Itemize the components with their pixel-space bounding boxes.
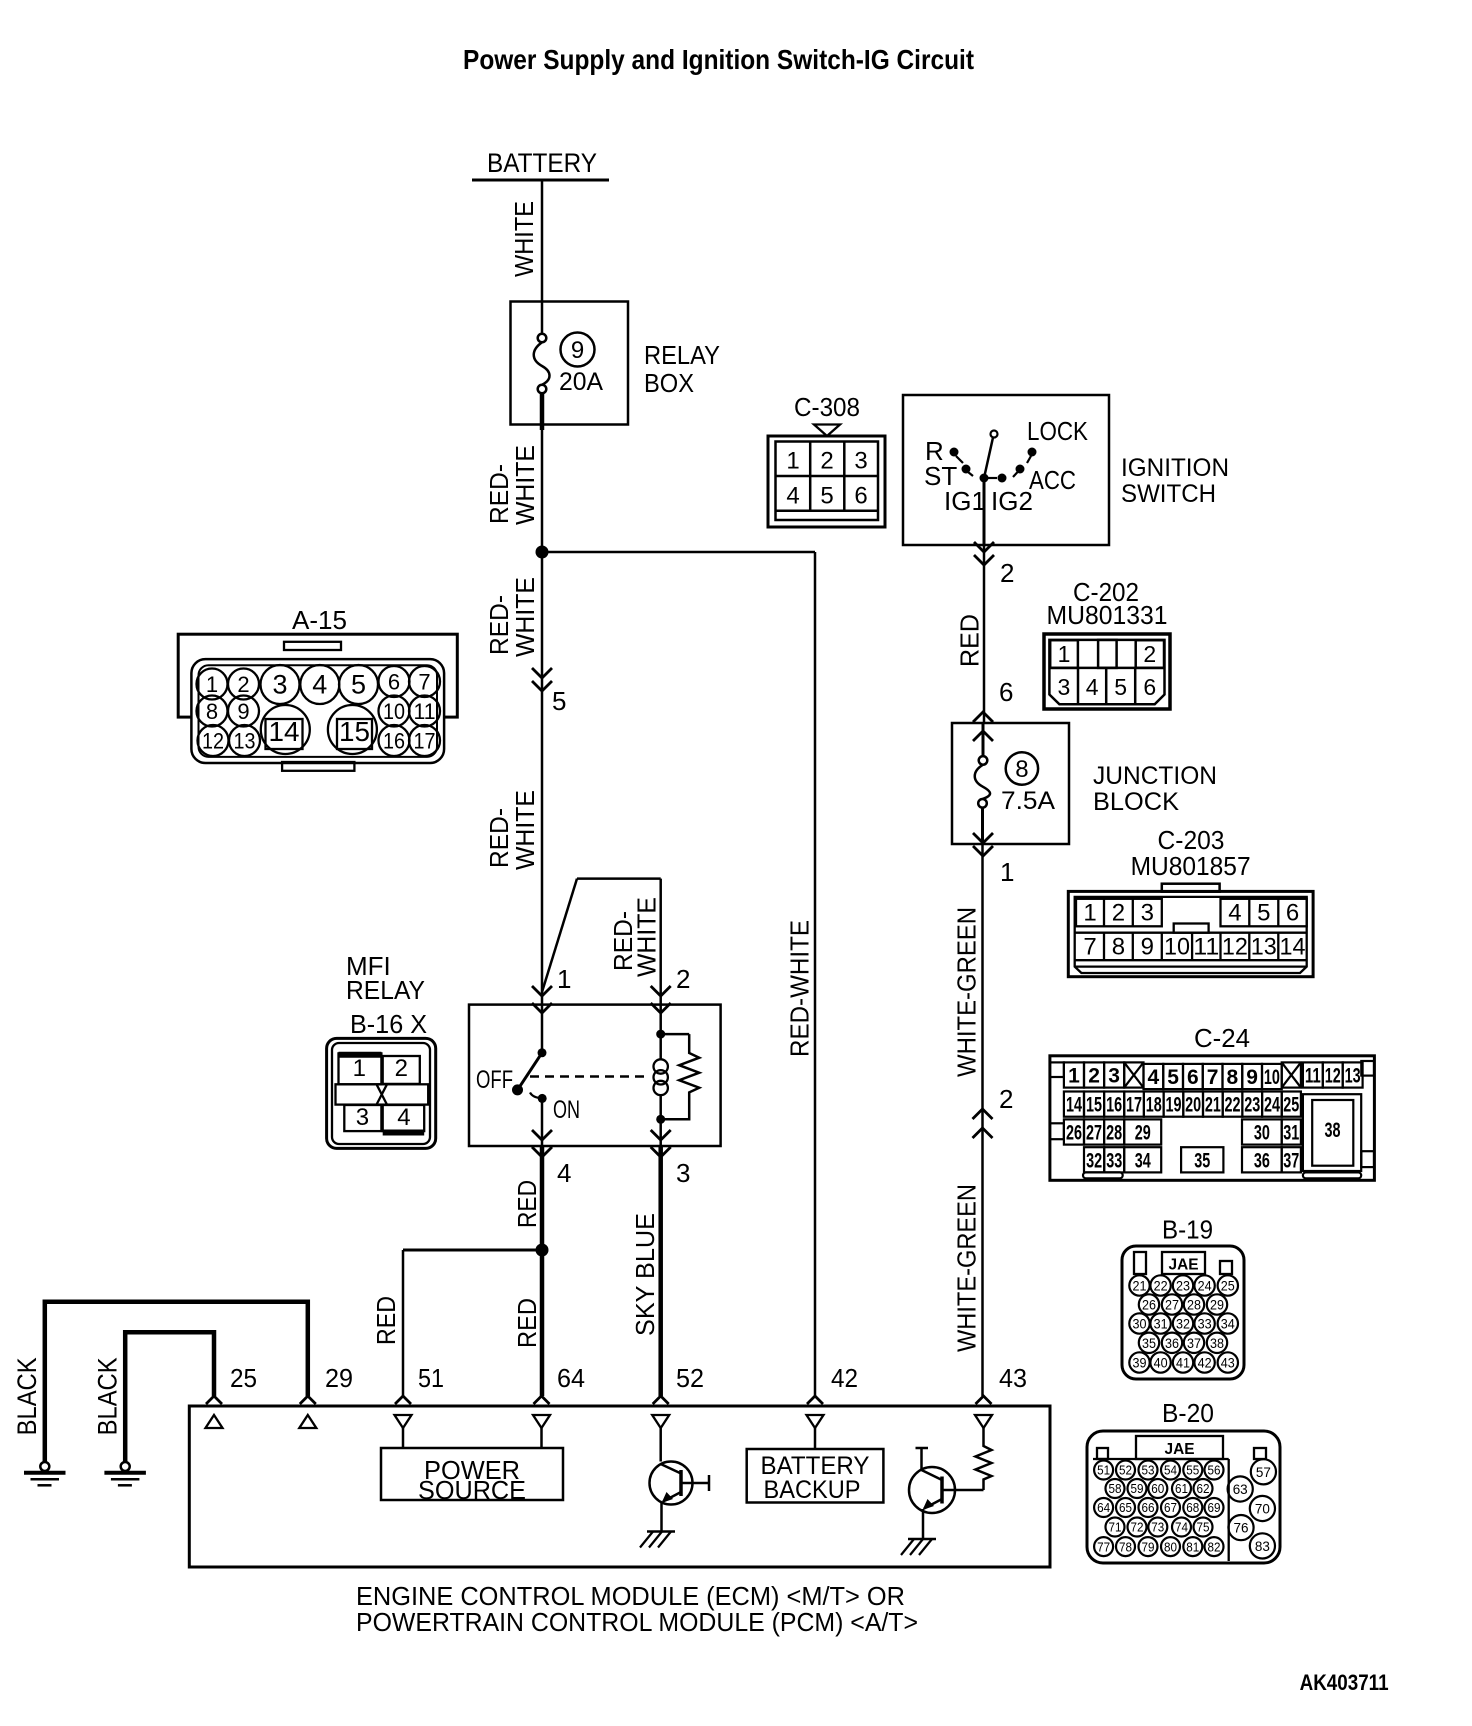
svg-text:WHITE-GREEN: WHITE-GREEN [952, 1184, 982, 1352]
svg-text:MU801857: MU801857 [1131, 851, 1251, 881]
wire label WHITE-GREEN lower [952, 1184, 982, 1352]
svg-text:25: 25 [1283, 1094, 1299, 1117]
wire label WHITE-GREEN upper [952, 907, 982, 1077]
connector C-24 body [1050, 1056, 1375, 1181]
svg-text:51: 51 [1097, 1463, 1110, 1478]
svg-text:64: 64 [557, 1363, 585, 1393]
svg-text:23: 23 [1176, 1279, 1190, 1294]
svg-text:JAE: JAE [1169, 1257, 1199, 1274]
svg-text:64: 64 [1097, 1500, 1110, 1515]
svg-text:81: 81 [1186, 1539, 1199, 1554]
connector C-24 label [1194, 1023, 1250, 1053]
svg-text:70: 70 [1255, 1501, 1270, 1517]
ground (chassis) Q1 [640, 1532, 675, 1548]
svg-text:4: 4 [397, 1104, 410, 1131]
svg-text:9: 9 [571, 337, 584, 364]
ground (chassis) Q2 [901, 1539, 936, 1555]
wire WHITE-GREEN [981, 844, 984, 1396]
svg-text:15: 15 [1086, 1094, 1102, 1117]
svg-text:RELAY: RELAY [644, 340, 720, 370]
flow arrows up [973, 1109, 993, 1138]
svg-text:8: 8 [1227, 1066, 1239, 1089]
svg-text:59: 59 [1131, 1481, 1144, 1496]
wire label RED (pin 64) [512, 1298, 542, 1348]
junction block box [952, 723, 1069, 844]
wire label SKY BLUE [630, 1213, 660, 1336]
ECM name text [356, 1581, 918, 1637]
svg-text:16: 16 [383, 729, 405, 754]
junction block label [1093, 762, 1217, 816]
svg-text:4: 4 [312, 670, 327, 700]
svg-text:12: 12 [1325, 1065, 1341, 1088]
svg-text:24: 24 [1198, 1279, 1212, 1294]
svg-text:1: 1 [206, 672, 218, 697]
svg-text:2: 2 [999, 1084, 1013, 1114]
svg-text:6: 6 [1187, 1066, 1199, 1089]
svg-text:52: 52 [676, 1363, 704, 1393]
svg-text:83: 83 [1255, 1538, 1270, 1554]
svg-text:3: 3 [1108, 1065, 1120, 1088]
connector A-15 body [178, 634, 457, 771]
ignition switch name [1121, 454, 1229, 508]
svg-text:16: 16 [1106, 1094, 1122, 1117]
svg-text:36: 36 [1165, 1336, 1179, 1351]
ECM pin 43 [975, 1363, 1027, 1444]
svg-text:68: 68 [1186, 1500, 1199, 1515]
svg-text:1: 1 [1058, 641, 1071, 667]
svg-text:28: 28 [1106, 1122, 1122, 1145]
svg-text:51: 51 [418, 1363, 444, 1393]
relay pin 4 arrows and label [532, 1130, 571, 1188]
svg-text:62: 62 [1197, 1481, 1210, 1496]
wire label WHITE [509, 201, 539, 277]
svg-text:5: 5 [820, 483, 833, 510]
relay coil [654, 1005, 668, 1146]
svg-text:15: 15 [339, 716, 370, 747]
ECM pin 51 [395, 1363, 445, 1448]
flow arrows on RED-WHITE wire [532, 668, 552, 691]
svg-text:RED: RED [512, 1180, 542, 1228]
svg-text:2: 2 [1112, 900, 1125, 927]
svg-text:17: 17 [1126, 1094, 1142, 1117]
svg-text:24: 24 [1264, 1094, 1280, 1117]
svg-text:80: 80 [1164, 1539, 1177, 1554]
svg-text:BLACK: BLACK [12, 1357, 42, 1435]
svg-text:29: 29 [1135, 1122, 1151, 1145]
connector C-308 label [794, 392, 860, 422]
svg-text:36: 36 [1254, 1149, 1270, 1172]
title [463, 44, 974, 75]
svg-text:43: 43 [999, 1363, 1027, 1393]
svg-text:OFF: OFF [476, 1066, 513, 1094]
relay box label [644, 340, 720, 398]
svg-text:17: 17 [414, 729, 436, 754]
svg-text:13: 13 [1345, 1065, 1361, 1088]
svg-text:69: 69 [1208, 1500, 1221, 1515]
svg-text:28: 28 [1187, 1298, 1201, 1313]
svg-text:34: 34 [1221, 1317, 1235, 1332]
svg-text:19: 19 [1165, 1094, 1181, 1117]
svg-text:43: 43 [1221, 1356, 1235, 1371]
ECM pin 52 [652, 1363, 704, 1462]
svg-text:63: 63 [1233, 1481, 1248, 1497]
wire G1 to ECM pin 29, BLACK [45, 1302, 308, 1462]
svg-text:6: 6 [1286, 900, 1299, 927]
svg-text:3: 3 [1141, 900, 1154, 927]
wire IG to junction block, RED [983, 545, 986, 723]
svg-text:77: 77 [1097, 1539, 1110, 1554]
svg-text:9: 9 [1246, 1066, 1258, 1089]
svg-text:WHITE-GREEN: WHITE-GREEN [952, 907, 982, 1077]
wire branch node B to ECM pin 51, RED [403, 1250, 542, 1396]
svg-text:30: 30 [1254, 1122, 1270, 1145]
svg-text:11: 11 [1193, 934, 1219, 961]
svg-text:75: 75 [1197, 1520, 1210, 1535]
connector C-308 pointer triangle [814, 425, 840, 437]
svg-text:5: 5 [1114, 674, 1127, 700]
svg-text:39: 39 [1133, 1356, 1147, 1371]
svg-text:1: 1 [353, 1055, 366, 1082]
svg-text:5: 5 [351, 670, 366, 700]
svg-text:4: 4 [1228, 900, 1241, 927]
ignition switch position labels [924, 416, 1089, 516]
wire label RED-WHITE lower [484, 790, 540, 870]
svg-text:58: 58 [1109, 1481, 1122, 1496]
svg-text:61: 61 [1175, 1481, 1188, 1496]
MFI relay box [469, 1005, 721, 1146]
svg-text:C-308: C-308 [794, 392, 860, 422]
svg-text:37: 37 [1187, 1336, 1201, 1351]
resistor R1 (pin 43) [976, 1444, 992, 1490]
svg-text:BATTERY: BATTERY [487, 148, 597, 178]
svg-text:14: 14 [269, 716, 300, 747]
svg-text:8: 8 [1112, 934, 1125, 961]
svg-text:3: 3 [676, 1158, 690, 1188]
svg-text:26: 26 [1142, 1298, 1156, 1313]
svg-text:7: 7 [1083, 934, 1096, 961]
svg-text:WHITE: WHITE [510, 790, 540, 870]
svg-text:32: 32 [1176, 1317, 1190, 1332]
svg-text:8: 8 [206, 699, 218, 724]
svg-text:B-16 X: B-16 X [350, 1009, 427, 1039]
svg-text:WHITE: WHITE [510, 445, 540, 525]
ground G2 [104, 1462, 145, 1485]
svg-text:32: 32 [1086, 1149, 1102, 1172]
svg-text:33: 33 [1106, 1149, 1122, 1172]
connector C-203 body [1068, 884, 1313, 977]
svg-text:38: 38 [1325, 1119, 1341, 1142]
svg-text:RED: RED [955, 614, 985, 667]
ECM box [189, 1406, 1050, 1567]
svg-text:21: 21 [1205, 1094, 1221, 1117]
svg-text:Power Supply and Ignition Swit: Power Supply and Ignition Switch-IG Circ… [463, 44, 974, 75]
svg-text:9: 9 [1141, 934, 1154, 961]
svg-text:2: 2 [1000, 558, 1014, 588]
svg-text:42: 42 [1198, 1356, 1212, 1371]
fuse rating 7.5A [1001, 787, 1055, 815]
svg-text:18: 18 [1146, 1094, 1162, 1117]
svg-text:JUNCTION: JUNCTION [1093, 762, 1217, 790]
svg-text:1: 1 [557, 964, 571, 994]
svg-text:55: 55 [1186, 1463, 1199, 1478]
flow arrows out of junction block [973, 833, 993, 856]
ECM pin 64 [533, 1363, 585, 1448]
svg-text:10: 10 [383, 699, 405, 724]
svg-text:ACC: ACC [1029, 465, 1076, 495]
pin 6 label [999, 677, 1013, 707]
svg-text:3: 3 [356, 1104, 369, 1131]
ECM pin 29 [299, 1363, 353, 1428]
svg-text:57: 57 [1256, 1464, 1271, 1480]
svg-text:2: 2 [820, 448, 833, 475]
wire label RED-WHITE [484, 577, 540, 657]
svg-text:22: 22 [1154, 1279, 1168, 1294]
transistor Q1 [650, 1462, 710, 1532]
svg-text:22: 22 [1225, 1094, 1241, 1117]
svg-text:WHITE: WHITE [510, 577, 540, 657]
svg-text:2: 2 [1143, 641, 1156, 667]
svg-text:82: 82 [1208, 1539, 1221, 1554]
svg-text:A-15: A-15 [292, 605, 347, 635]
svg-text:6: 6 [1143, 674, 1156, 700]
connector B-20 body [1087, 1431, 1280, 1563]
fuse rating 20A [559, 368, 603, 396]
svg-text:79: 79 [1142, 1539, 1155, 1554]
connector C-308 body [768, 436, 885, 527]
svg-text:6: 6 [854, 483, 867, 510]
svg-text:RED-WHITE: RED-WHITE [785, 920, 815, 1057]
relay pin 1 arrows and label [532, 964, 571, 1013]
wire label RED (pin 51) [371, 1296, 401, 1345]
svg-text:25: 25 [1221, 1279, 1235, 1294]
ON label [553, 1096, 580, 1124]
power source block [381, 1448, 563, 1505]
svg-text:IG2: IG2 [991, 486, 1033, 516]
connector C-202 body [1044, 634, 1170, 709]
svg-text:6: 6 [388, 670, 400, 695]
svg-text:4: 4 [557, 1158, 571, 1188]
drawing number AK403711 [1300, 1670, 1389, 1695]
svg-text:67: 67 [1164, 1500, 1177, 1515]
pin 5 label [552, 686, 566, 716]
svg-text:7: 7 [1207, 1066, 1219, 1089]
svg-text:2: 2 [395, 1055, 408, 1082]
relay pin 2 arrows and label [651, 964, 691, 1013]
svg-text:RED: RED [371, 1296, 401, 1345]
OFF label [476, 1066, 513, 1094]
wire node A to C-308 branch (horizontal) [542, 551, 815, 554]
svg-text:4: 4 [786, 483, 799, 510]
svg-text:5: 5 [1167, 1066, 1179, 1089]
svg-text:31: 31 [1283, 1122, 1299, 1145]
svg-text:3: 3 [1058, 674, 1071, 700]
svg-text:RELAY: RELAY [346, 975, 425, 1005]
svg-text:20: 20 [1185, 1094, 1201, 1117]
flow arrows [974, 542, 994, 565]
svg-text:5: 5 [552, 686, 566, 716]
connector C-202 label [1047, 577, 1168, 630]
svg-text:35: 35 [1194, 1149, 1210, 1172]
svg-text:10: 10 [1164, 934, 1190, 961]
ignition switch box [903, 395, 1109, 545]
svg-text:14: 14 [1280, 934, 1306, 961]
svg-text:IG1: IG1 [944, 486, 986, 516]
svg-text:ON: ON [553, 1096, 580, 1124]
svg-text:3: 3 [272, 670, 287, 700]
svg-text:9: 9 [237, 699, 249, 724]
svg-text:27: 27 [1086, 1122, 1102, 1145]
ground G1 [24, 1462, 66, 1485]
svg-text:25: 25 [230, 1363, 257, 1393]
ignition switch rotor pivot [984, 431, 998, 479]
fuse 8 7.5A symbol [975, 723, 990, 844]
svg-text:23: 23 [1244, 1094, 1260, 1117]
svg-text:12: 12 [202, 729, 224, 754]
connector B-16 body [327, 1038, 436, 1148]
svg-text:38: 38 [1210, 1336, 1224, 1351]
connector B-16 X label [350, 1009, 427, 1039]
svg-text:11: 11 [1305, 1065, 1321, 1088]
connector B-19 body [1122, 1246, 1244, 1379]
MFI relay label [346, 951, 425, 1005]
svg-text:27: 27 [1165, 1298, 1179, 1313]
svg-text:1: 1 [786, 448, 799, 475]
connector B-20 label [1162, 1398, 1214, 1428]
wire label RED-WHITE [484, 445, 540, 525]
svg-text:73: 73 [1151, 1520, 1164, 1535]
relay switch (OFF/ON) [512, 1005, 547, 1146]
svg-text:WHITE: WHITE [509, 201, 539, 277]
wire label RED-WHITE (branch) [785, 920, 815, 1057]
svg-text:11: 11 [414, 699, 436, 724]
svg-text:31: 31 [1154, 1317, 1168, 1332]
svg-text:JAE: JAE [1165, 1441, 1195, 1458]
svg-text:LOCK: LOCK [1027, 416, 1089, 446]
wire node A down to MFI relay (RED-WHITE) [541, 552, 544, 1004]
svg-text:2: 2 [237, 672, 249, 697]
svg-text:BLOCK: BLOCK [1093, 788, 1179, 816]
svg-text:8: 8 [1015, 756, 1028, 783]
svg-text:BACKUP: BACKUP [764, 1476, 861, 1504]
wire label BLACK [12, 1357, 42, 1435]
node A junction dot [536, 546, 549, 559]
svg-text:4: 4 [1086, 674, 1099, 700]
svg-text:2: 2 [676, 964, 690, 994]
pin 1 label [1000, 857, 1014, 887]
svg-text:26: 26 [1066, 1122, 1082, 1145]
coil parallel resistor [661, 1034, 700, 1119]
relay box outline [511, 302, 629, 425]
svg-text:B-19: B-19 [1162, 1215, 1213, 1245]
svg-text:52: 52 [1119, 1463, 1132, 1478]
pin 2 label [1000, 558, 1014, 588]
svg-text:56: 56 [1208, 1463, 1221, 1478]
svg-text:IGNITION: IGNITION [1121, 454, 1229, 482]
svg-text:29: 29 [325, 1363, 353, 1393]
svg-text:66: 66 [1142, 1500, 1155, 1515]
battery terminal [472, 148, 609, 180]
wire label RED (pin 4) [512, 1180, 542, 1228]
svg-text:53: 53 [1142, 1463, 1155, 1478]
svg-text:1: 1 [1083, 900, 1096, 927]
wire battery to relay box, WHITE [541, 180, 544, 302]
svg-text:RED: RED [512, 1298, 542, 1348]
connector C-203 label [1131, 825, 1251, 881]
wire label RED-WHITE (pin2 branch) [608, 897, 661, 977]
transistor Q2 [909, 1448, 984, 1538]
svg-text:41: 41 [1176, 1356, 1190, 1371]
fuse circle 9 [561, 333, 595, 367]
svg-text:54: 54 [1164, 1463, 1177, 1478]
ECM pin 42 [807, 1363, 859, 1449]
svg-text:SKY BLUE: SKY BLUE [630, 1213, 660, 1336]
fuse 9 20A symbol [534, 302, 550, 430]
battery backup block [747, 1449, 884, 1504]
svg-text:13: 13 [1251, 934, 1277, 961]
relay pin 3 arrows and label [651, 1130, 691, 1188]
svg-text:BLACK: BLACK [93, 1357, 123, 1435]
svg-text:4: 4 [1148, 1066, 1160, 1089]
svg-text:12: 12 [1222, 934, 1248, 961]
svg-text:AK403711: AK403711 [1300, 1670, 1389, 1695]
svg-text:34: 34 [1135, 1149, 1151, 1172]
connector A-15 label [292, 605, 347, 635]
svg-text:1: 1 [1000, 857, 1014, 887]
svg-text:76: 76 [1234, 1520, 1249, 1536]
connector B-19 label [1162, 1215, 1213, 1245]
svg-text:MU801331: MU801331 [1047, 600, 1168, 630]
svg-text:29: 29 [1210, 1298, 1224, 1313]
svg-text:78: 78 [1119, 1539, 1132, 1554]
svg-text:60: 60 [1151, 1481, 1164, 1496]
ECM pin 25 [206, 1363, 258, 1428]
svg-text:74: 74 [1175, 1520, 1188, 1535]
svg-text:35: 35 [1142, 1336, 1156, 1351]
pin 2 label [999, 1084, 1013, 1114]
svg-text:14: 14 [1066, 1094, 1082, 1117]
fuse circle 8 [1006, 752, 1038, 784]
svg-text:3: 3 [854, 448, 867, 475]
svg-text:30: 30 [1133, 1317, 1147, 1332]
svg-text:13: 13 [234, 729, 256, 754]
svg-text:WHITE: WHITE [631, 897, 661, 977]
wire branch down to ECM pin 42, RED-WHITE [814, 552, 817, 1396]
wire relay box to node A (RED-WHITE) [541, 424, 544, 552]
svg-text:37: 37 [1283, 1149, 1299, 1172]
wire label BLACK [93, 1357, 123, 1435]
flow arrows into junction block [973, 712, 993, 741]
svg-text:42: 42 [831, 1363, 858, 1393]
svg-text:SWITCH: SWITCH [1121, 480, 1216, 508]
svg-text:7: 7 [418, 670, 430, 695]
ignition switch contacts [950, 448, 1037, 483]
svg-text:1: 1 [1068, 1065, 1080, 1088]
wire branch to relay pin 2 (RED-WHITE) [542, 879, 661, 1004]
node B junction dot [536, 1244, 549, 1257]
dashed actuation line [530, 1075, 649, 1078]
wire G2 to ECM pin 25, BLACK [125, 1332, 214, 1462]
svg-text:7.5A: 7.5A [1001, 787, 1055, 815]
svg-text:71: 71 [1109, 1520, 1122, 1535]
svg-text:20A: 20A [559, 368, 603, 396]
wire relay pin3 to ECM pin 52, SKY BLUE [658, 1146, 663, 1396]
svg-text:2: 2 [1088, 1065, 1100, 1088]
svg-text:C-24: C-24 [1194, 1023, 1250, 1053]
wire relay pin4 to ECM pin 64, RED [540, 1146, 545, 1396]
svg-text:6: 6 [999, 677, 1013, 707]
svg-text:B-20: B-20 [1162, 1398, 1214, 1428]
svg-text:40: 40 [1154, 1356, 1168, 1371]
